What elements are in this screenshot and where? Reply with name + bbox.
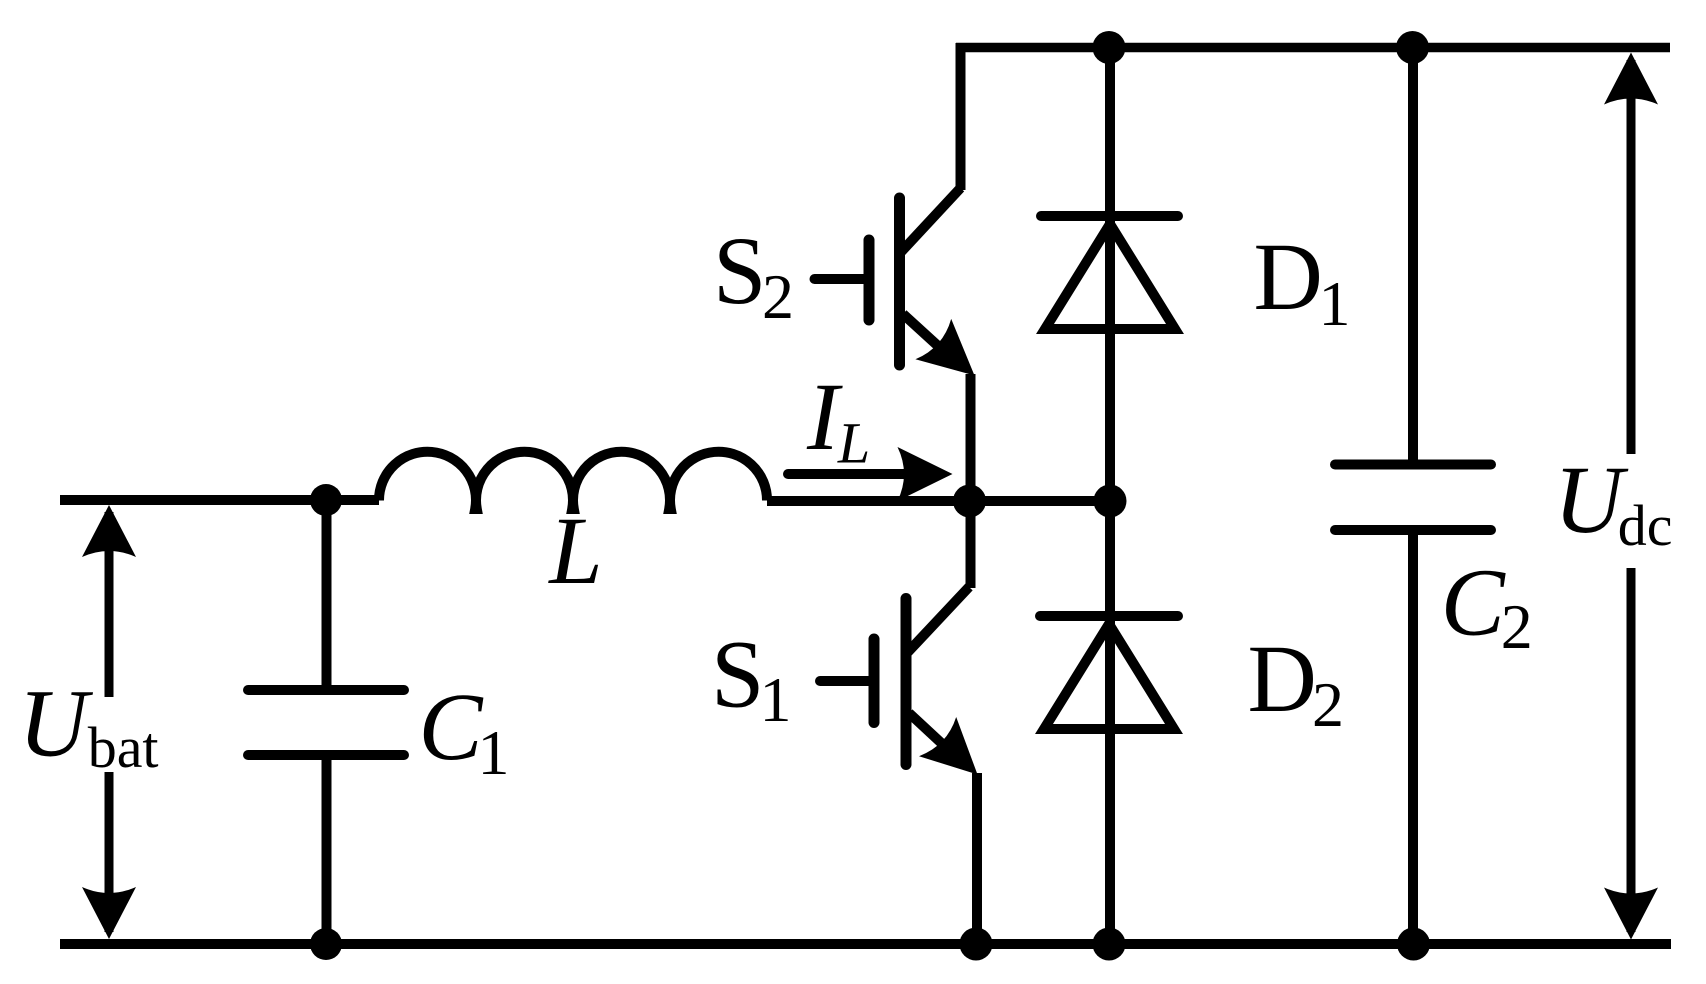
node battery rail C1 junction	[310, 484, 342, 516]
wire S2 emitter to midpoint	[966, 374, 976, 501]
wire S2 collector drop from top rail	[956, 43, 966, 190]
diode D2 cathode bar	[1040, 611, 1178, 621]
node top rail C2 junction	[1396, 31, 1429, 64]
capacitor C1 bottom plate	[248, 750, 404, 760]
wire S1 gate lead	[820, 676, 870, 686]
svg-text:C: C	[1441, 549, 1506, 656]
wire top rail (positive DC bus)	[956, 43, 1670, 53]
arrow U_bat shaft upper	[105, 512, 114, 697]
wire bottom rail (negative bus)	[60, 939, 1671, 949]
wire middle net (inductor to half-bridge midpoint)	[767, 496, 1110, 506]
transistor S1 gate bar	[869, 639, 880, 723]
svg-text:2: 2	[1312, 669, 1344, 740]
transistor S2 emitter diagonal	[903, 314, 960, 366]
svg-text:1: 1	[1319, 268, 1351, 339]
transistor S2 body bar	[894, 198, 905, 365]
node top rail diode junction	[1093, 31, 1126, 64]
svg-text:D: D	[1254, 223, 1323, 330]
capacitor C1 top plate	[248, 685, 404, 695]
svg-text:L: L	[547, 497, 602, 604]
transistor S1 body bar	[901, 599, 912, 765]
transistor S2 gate bar	[864, 240, 875, 320]
arrow U_bat head down	[82, 887, 136, 939]
capacitor C2 bottom plate	[1335, 525, 1491, 535]
svg-text:C: C	[419, 673, 484, 780]
wire battery top rail	[60, 495, 379, 505]
node middle diode junction	[1094, 485, 1127, 518]
svg-text:bat: bat	[88, 715, 159, 780]
node bottom diode junction	[1093, 928, 1126, 961]
wire C1 leg bottom	[322, 755, 332, 944]
transistor S1 collector diagonal	[908, 587, 969, 652]
wire C2 leg top	[1408, 43, 1418, 465]
wire S1 emitter to bottom rail	[972, 773, 982, 944]
transistor Q S2 collector diagonal	[901, 188, 961, 252]
svg-text:U: U	[19, 670, 94, 777]
inductor L	[379, 452, 767, 509]
diode D1 cathode bar	[1041, 211, 1178, 221]
transistor S1 emitter diagonal	[909, 713, 965, 765]
wire diode leg vertical	[1105, 48, 1115, 945]
arrow U_bat head up	[82, 505, 136, 557]
node midpoint junction	[953, 485, 986, 518]
arrow U_dc head up	[1604, 53, 1658, 105]
node bottom rail C2 junction	[1397, 928, 1430, 961]
arrow U_dc shaft lower	[1627, 568, 1636, 932]
arrow I_L shaft	[788, 469, 915, 479]
arrow U_dc head down	[1604, 888, 1658, 940]
capacitor C2 top plate	[1335, 460, 1491, 470]
transistor S2 emitter arrowhead	[915, 319, 992, 396]
svg-text:1: 1	[760, 664, 792, 735]
svg-text:2: 2	[1501, 591, 1533, 662]
svg-text:S: S	[713, 217, 766, 324]
node bottom rail C1 junction	[310, 928, 342, 960]
diode D2 triangle	[1044, 624, 1174, 729]
svg-text:1: 1	[478, 717, 510, 788]
arrow U_dc shaft upper	[1627, 60, 1636, 454]
diode D1 triangle	[1045, 224, 1175, 329]
svg-text:D: D	[1248, 625, 1317, 732]
transistor S1 emitter arrowhead	[919, 717, 996, 794]
svg-text:dc: dc	[1618, 493, 1673, 558]
arrow U_bat shaft lower	[105, 772, 114, 932]
svg-text:2: 2	[762, 261, 794, 332]
node S1 emitter bottom junction	[960, 928, 993, 961]
wire C2 leg bottom	[1408, 530, 1418, 944]
wire C1 leg top	[322, 500, 332, 690]
arrow I_L head	[898, 447, 953, 501]
wire S2 gate lead	[815, 274, 867, 284]
svg-text:L: L	[837, 411, 870, 476]
svg-text:S: S	[711, 621, 764, 728]
wire S1 collector rise to midpoint	[966, 501, 976, 588]
